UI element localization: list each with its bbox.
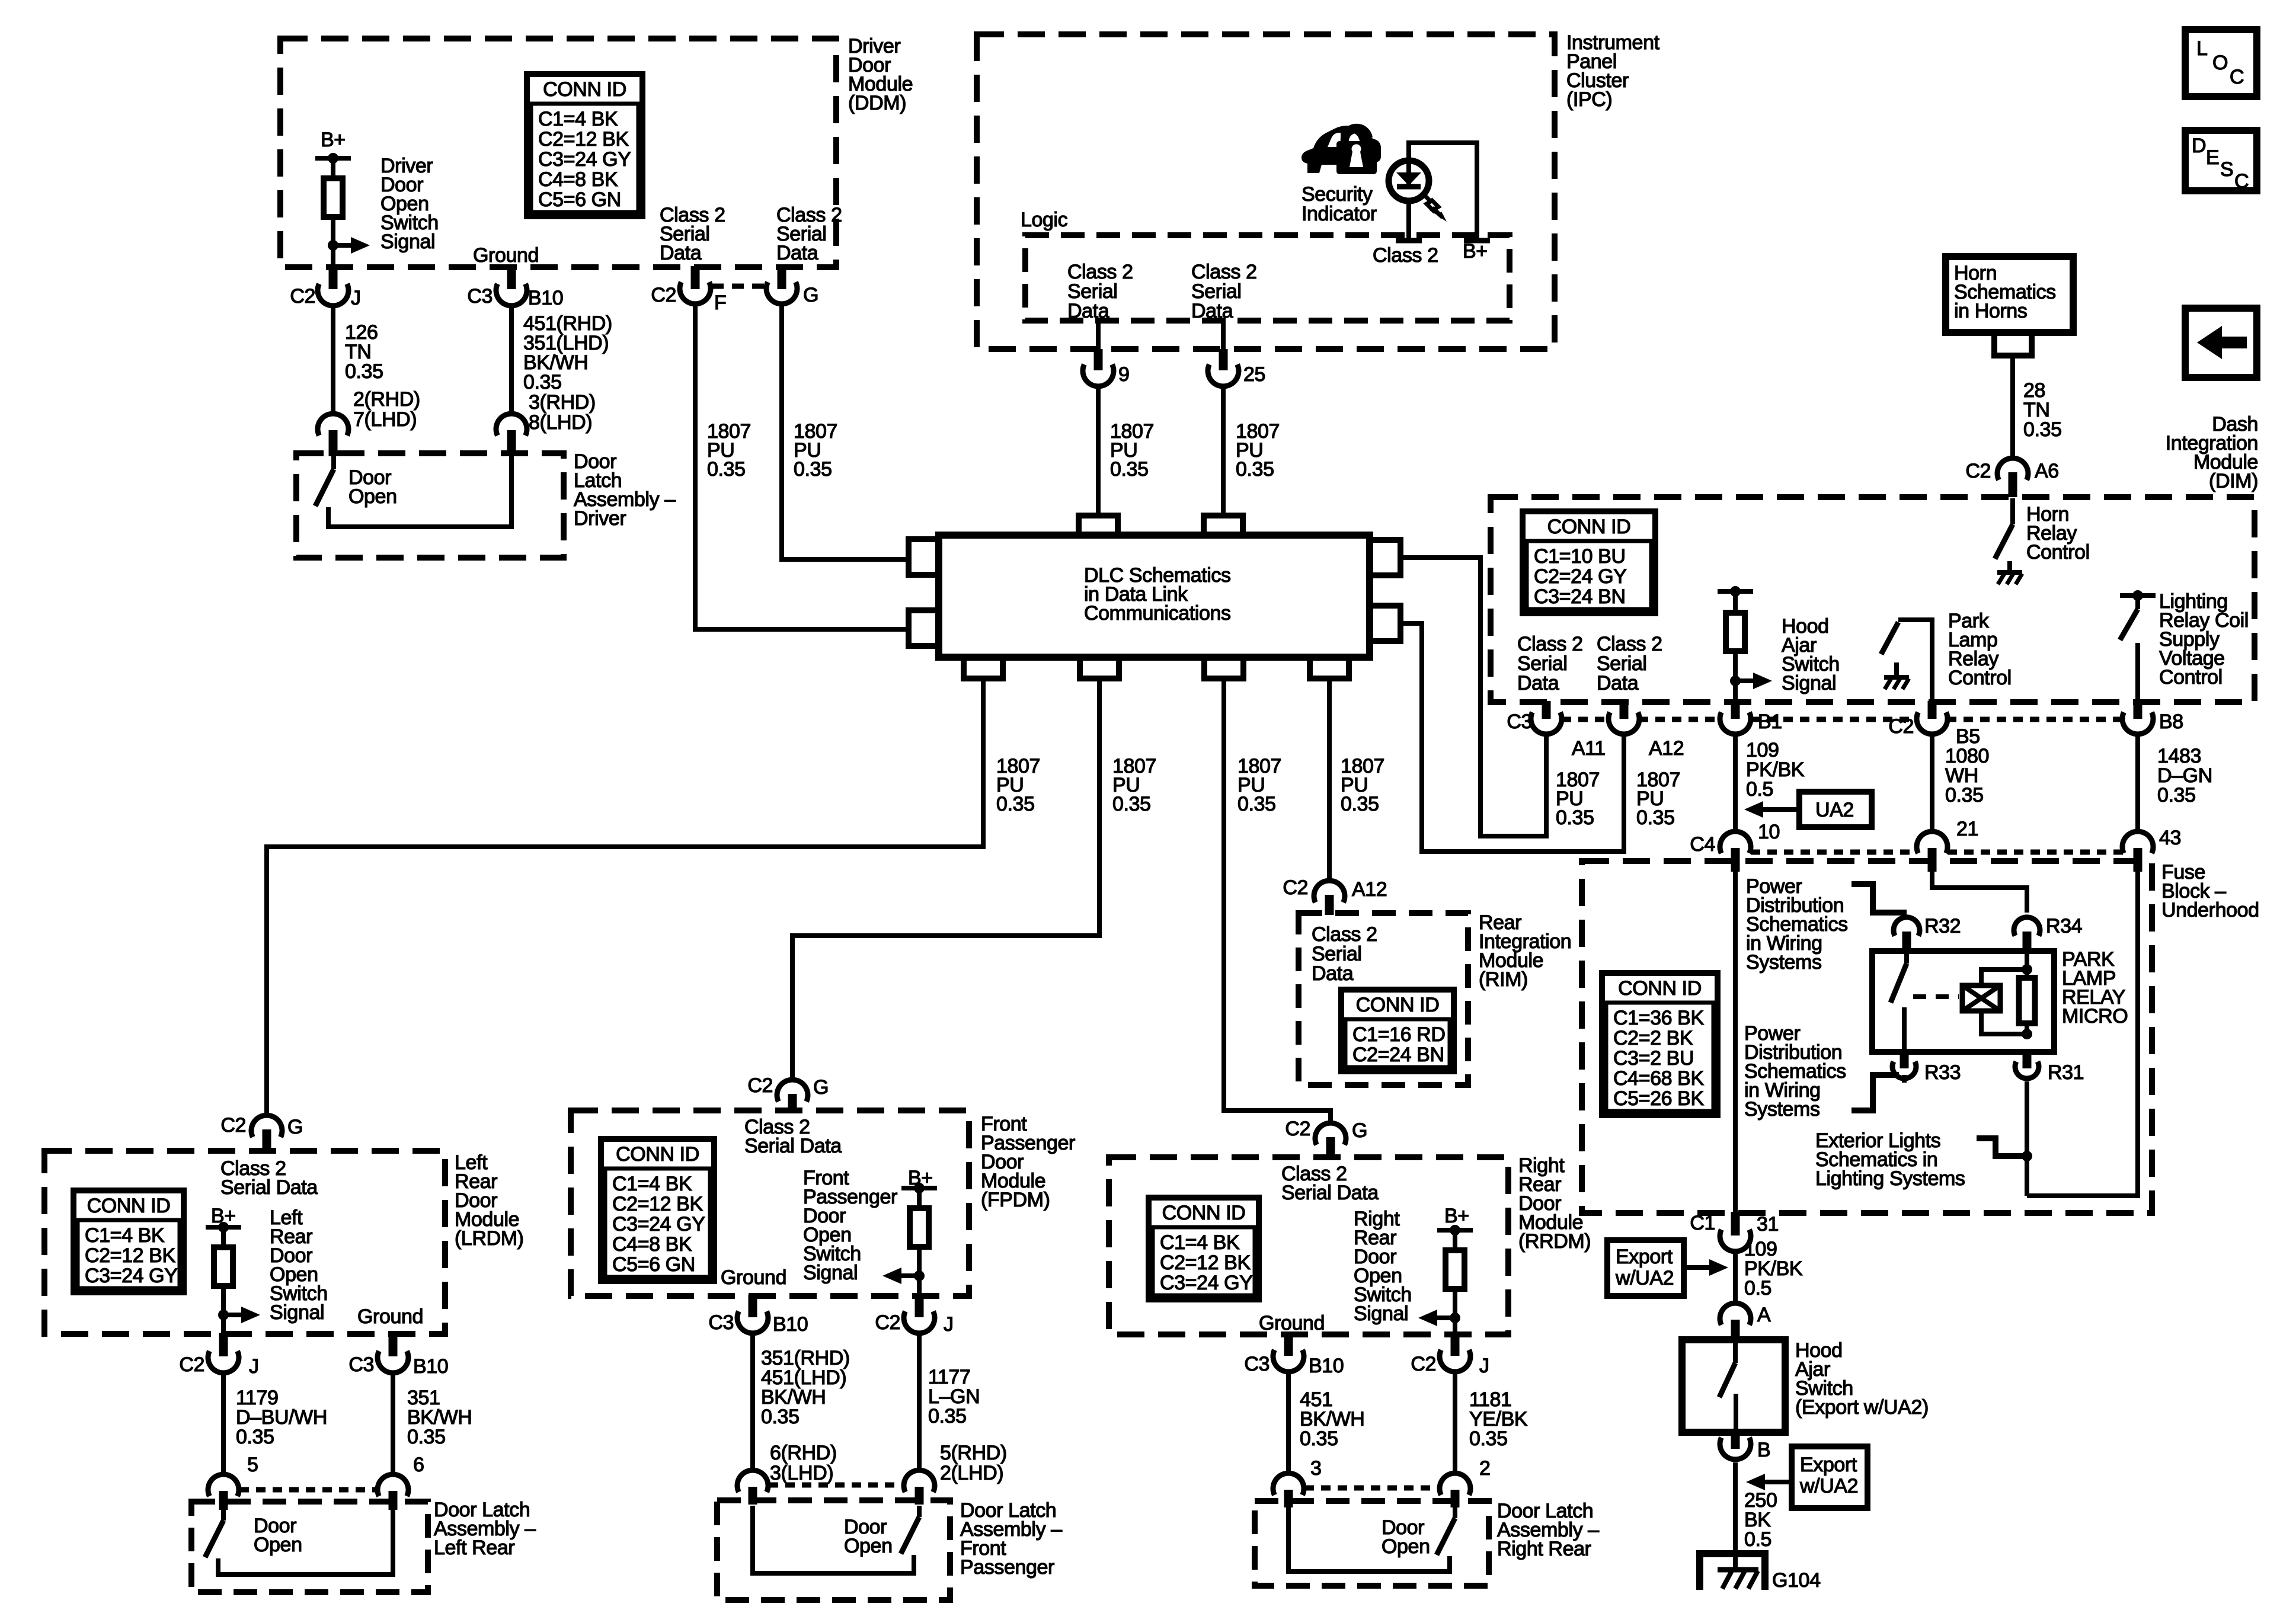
switch Door Open (left rear latch): [221, 1510, 226, 1521]
switch Door Open (driver latch): [331, 453, 336, 469]
wire 250 BK 0.5 (to G104): [1733, 1462, 1738, 1571]
svg-text:Control: Control: [2159, 666, 2223, 689]
svg-text:Data: Data: [1597, 672, 1639, 694]
connector 21 (fuse block): [1917, 831, 1948, 853]
svg-text:0.35: 0.35: [2157, 784, 2196, 806]
module DLC Schematics box: [939, 535, 1370, 657]
wire DLC to LRDM (class 2): [267, 678, 983, 1113]
switch park lamp relay control (DIM): [1898, 620, 1932, 702]
svg-text:B+: B+: [1444, 1205, 1469, 1227]
svg-text:C1=4 BK: C1=4 BK: [85, 1224, 165, 1247]
node junction + signal arrow (Driver Door Open Switch Signal): [328, 240, 338, 251]
inline connector dashes latch right rear: [1304, 1486, 1440, 1491]
ground chassis (horn relay control): [1997, 570, 2022, 575]
connector C2 G (RRDM): [1315, 1123, 1346, 1145]
svg-text:Data: Data: [1191, 300, 1233, 322]
svg-text:0.35: 0.35: [345, 360, 383, 383]
svg-text:CONN ID: CONN ID: [1547, 516, 1631, 538]
bracket power distribution to R32: [1851, 884, 1907, 913]
svg-text:Open: Open: [348, 485, 397, 508]
module RIM dashed box (Rear Integration Module): [1299, 913, 1468, 1085]
svg-text:S: S: [2220, 158, 2233, 181]
svg-text:Serial Data: Serial Data: [220, 1176, 318, 1199]
svg-text:Ground: Ground: [721, 1266, 786, 1289]
bottom pin bracket (Horn Schematics): [1994, 332, 2032, 356]
svg-text:0.35: 0.35: [1556, 806, 1594, 829]
svg-text:Indicator: Indicator: [1302, 203, 1377, 225]
svg-text:G: G: [1352, 1119, 1367, 1142]
module FPDM dashed box (Front Passenger Door Module): [571, 1110, 969, 1296]
CONN ID table (DDM): [527, 74, 642, 216]
option box UA2: [1799, 792, 1872, 827]
svg-text:C1=4 BK: C1=4 BK: [538, 108, 618, 130]
svg-text:B10: B10: [1309, 1355, 1344, 1377]
svg-text:C2=12 BK: C2=12 BK: [612, 1193, 703, 1215]
svg-text:C1: C1: [1690, 1212, 1715, 1234]
svg-text:C2=12 BK: C2=12 BK: [538, 128, 629, 151]
wire resistor to C2-J (LRDM): [221, 1286, 226, 1334]
connector C2 G (FPDM): [777, 1080, 808, 1102]
svg-text:G104: G104: [1772, 1569, 1821, 1592]
wire 109 PK/BK through fuse block (C4 to C1): [1733, 871, 1738, 1213]
svg-text:C2: C2: [1965, 460, 1991, 482]
svg-text:Open: Open: [1382, 1535, 1430, 1558]
connector pin 2 (door latch right rear): [1440, 1473, 1470, 1495]
svg-text:(Export w/UA2): (Export w/UA2): [1795, 1396, 1929, 1419]
svg-text:Serial Data: Serial Data: [1281, 1182, 1379, 1204]
arrow Export w/UA2 applies (upper): [1683, 1265, 1712, 1270]
inline connector dashes latch left rear: [239, 1487, 378, 1493]
svg-text:Systems: Systems: [1746, 951, 1822, 974]
svg-text:0.35: 0.35: [236, 1426, 274, 1448]
svg-text:CONN ID: CONN ID: [1356, 994, 1440, 1016]
svg-text:D: D: [2192, 135, 2206, 157]
connector pin 9 (IPC): [1096, 321, 1101, 351]
wire B+ to resistor (LRDM): [221, 1227, 226, 1247]
connector 43 (fuse block): [2122, 831, 2153, 853]
svg-text:Signal: Signal: [1354, 1302, 1408, 1325]
node relay coil bottom: [2022, 1029, 2032, 1039]
connector B (hood ajar switch): [1731, 1431, 1740, 1449]
left pin bracket lower (DLC): [909, 610, 939, 646]
wire R31 to 1483 D-GN (43): [2027, 871, 2138, 1196]
switch Door Open (front passenger latch): [917, 1506, 922, 1517]
module LRDM dashed box (Left Rear Door Module): [44, 1151, 445, 1334]
svg-text:Left Rear: Left Rear: [434, 1537, 514, 1559]
svg-text:3: 3: [1310, 1457, 1322, 1480]
ground chassis (park lamp relay control): [1884, 675, 1909, 680]
connector C2 G (LRDM): [251, 1115, 282, 1137]
module Door Latch Assembly - Left Rear dashed box: [191, 1502, 428, 1592]
svg-text:CONN ID: CONN ID: [1162, 1202, 1246, 1224]
left pin bracket upper (DLC): [909, 539, 939, 575]
svg-text:C3: C3: [708, 1311, 734, 1334]
node junction + arrow (right rear door open switch signal): [1450, 1313, 1460, 1323]
svg-text:0.35: 0.35: [1236, 458, 1274, 481]
svg-text:7(LHD): 7(LHD): [353, 408, 417, 431]
svg-text:C3=24 GY: C3=24 GY: [85, 1265, 178, 1287]
arrow Export w/UA2 applies (lower): [1763, 1480, 1793, 1484]
svg-text:(FPDM): (FPDM): [981, 1189, 1050, 1211]
connector B8 (DIM): [2134, 701, 2142, 719]
svg-text:0.35: 0.35: [1112, 793, 1151, 815]
wire 109 PK/BK 0.5 (C1 to hood ajar switch): [1733, 1254, 1738, 1301]
svg-text:C1=4 BK: C1=4 BK: [612, 1173, 692, 1195]
wire 21 to R34: [1932, 861, 2027, 913]
svg-text:0.35: 0.35: [1110, 458, 1149, 481]
switch park lamp relay contacts: [1904, 951, 1909, 964]
svg-text:B8: B8: [2159, 710, 2183, 733]
node junction + arrow (hood ajar switch signal): [1730, 676, 1741, 686]
svg-text:C2=2 BK: C2=2 BK: [1613, 1027, 1693, 1049]
node relay coil top: [2022, 964, 2032, 975]
connector pin 6 (door latch left rear): [378, 1474, 408, 1496]
node hood ajar feed tick (DIM): [1718, 589, 1753, 594]
svg-text:CONN ID: CONN ID: [87, 1195, 171, 1217]
svg-text:C2=12 BK: C2=12 BK: [1160, 1251, 1251, 1274]
svg-text:5: 5: [247, 1454, 258, 1476]
svg-text:Passenger: Passenger: [960, 1556, 1054, 1579]
wire 1807 PU (IPC 9 to DLC): [1096, 386, 1101, 514]
svg-text:G: G: [813, 1076, 829, 1099]
svg-text:9: 9: [1118, 363, 1130, 386]
connector C4 10 (fuse block): [1720, 831, 1751, 853]
wire resistor to C2-J (RRDM): [1453, 1289, 1457, 1334]
svg-text:B+: B+: [1463, 240, 1488, 263]
wire 451 BK/WH (RRDM to latch): [1286, 1374, 1291, 1471]
svg-text:31: 31: [1757, 1213, 1779, 1235]
module DDM dashed box (Driver Door Module): [280, 39, 836, 267]
svg-text:3(RHD): 3(RHD): [529, 391, 596, 414]
CONN ID table (DIM): [1523, 511, 1655, 613]
resistor DDM door open switch pull-up: [324, 178, 343, 217]
connector pin 6/3 (door latch front passenger): [737, 1470, 768, 1492]
switch horn relay control (DIM): [2010, 498, 2015, 524]
svg-text:C3=24 GY: C3=24 GY: [1160, 1272, 1253, 1294]
svg-text:Control: Control: [2026, 541, 2090, 564]
wire class 2 serial data G to DLC: [782, 306, 909, 559]
svg-text:J: J: [249, 1355, 259, 1378]
svg-text:Underhood: Underhood: [2161, 899, 2259, 921]
svg-text:CONN ID: CONN ID: [543, 78, 626, 101]
svg-text:R31: R31: [2048, 1061, 2084, 1084]
svg-text:C3: C3: [1507, 710, 1532, 733]
svg-text:C: C: [2234, 170, 2249, 193]
relay PARK LAMP RELAY MICRO box: [1872, 951, 2054, 1052]
svg-text:F: F: [714, 292, 726, 314]
svg-text:B10: B10: [773, 1313, 808, 1336]
switch lighting relay coil supply (DIM): [2135, 596, 2140, 609]
connector C2 A6 (DIM): [1997, 458, 2028, 480]
svg-text:Export: Export: [1616, 1246, 1673, 1268]
svg-text:0.35: 0.35: [407, 1426, 446, 1448]
connector C2 J (LRDM): [219, 1333, 228, 1356]
svg-text:J: J: [351, 287, 361, 309]
wire class 2 serial data F to DLC: [695, 306, 909, 629]
svg-text:Ground: Ground: [357, 1305, 423, 1328]
connector A12 (DIM): [1620, 701, 1629, 719]
svg-text:C2=24 BN: C2=24 BN: [1352, 1044, 1444, 1066]
svg-text:0.35: 0.35: [523, 371, 562, 393]
switch Door Open (right rear latch): [1453, 1507, 1457, 1518]
svg-text:w/UA2: w/UA2: [1615, 1267, 1674, 1289]
wire feed to resistor (hood ajar): [1733, 591, 1738, 613]
svg-text:C1=36 BK: C1=36 BK: [1613, 1007, 1704, 1029]
connector R33 (fuse block relay): [1900, 1052, 1909, 1068]
svg-text:A12: A12: [1352, 878, 1387, 901]
wire R31 to exterior lights node: [2025, 1081, 2029, 1196]
wire 1179 D-BU/WH (LRDM to latch): [221, 1375, 226, 1472]
inline connector dashes latch front passenger: [769, 1483, 904, 1488]
svg-text:C4=68 BK: C4=68 BK: [1613, 1067, 1704, 1090]
switch hood ajar contacts: [1733, 1340, 1738, 1363]
connector pin 3/8 (door latch driver): [496, 414, 527, 436]
ground G104: [1700, 1554, 1765, 1590]
svg-text:(LRDM): (LRDM): [455, 1227, 524, 1250]
connector A (hood ajar switch): [1720, 1303, 1751, 1325]
connector pin 5/2 (door latch front passenger): [904, 1470, 935, 1492]
CONN ID table (fuse block): [1602, 973, 1718, 1115]
svg-text:B10: B10: [528, 287, 563, 309]
svg-text:G: G: [803, 284, 818, 306]
svg-text:C2: C2: [1411, 1353, 1436, 1375]
svg-text:C2=24 GY: C2=24 GY: [1534, 565, 1627, 588]
wire DLC to DIM A12 (class 2): [1400, 623, 1624, 852]
bottom pin bracket 1 (DLC): [964, 657, 1003, 678]
LED security indicator lamp: [1406, 201, 1411, 241]
connector C3 B10 (RRDM): [1284, 1333, 1293, 1356]
svg-text:C2: C2: [1283, 876, 1308, 899]
connector G (DDM class 2): [778, 266, 786, 289]
svg-text:B: B: [1757, 1439, 1770, 1461]
svg-text:Signal: Signal: [270, 1301, 324, 1324]
wire resistor to B1 (hood ajar): [1733, 651, 1738, 702]
svg-text:C3=24 GY: C3=24 GY: [538, 148, 631, 171]
svg-text:25: 25: [1243, 363, 1265, 386]
svg-text:G: G: [287, 1116, 303, 1138]
svg-text:Data: Data: [660, 242, 702, 264]
wire 126 TN 0.35 (C2 J to door latch): [331, 308, 335, 411]
svg-text:6: 6: [413, 1454, 424, 1476]
svg-text:Open: Open: [844, 1535, 893, 1557]
svg-text:B+: B+: [321, 129, 346, 151]
connector C3 B10 (FPDM): [749, 1295, 757, 1317]
top pin bracket right (DLC): [1204, 516, 1243, 535]
svg-text:0.35: 0.35: [761, 1406, 800, 1428]
icon DESC box: [2185, 130, 2257, 191]
reference box Horn Schematics in Horns: [1946, 257, 2073, 332]
svg-text:R33: R33: [1924, 1061, 1961, 1084]
bracket exterior lights to R31 wire: [1977, 1138, 2025, 1156]
svg-text:B1: B1: [1758, 710, 1782, 733]
wire resistor to C2-J (FPDM): [917, 1247, 922, 1296]
svg-text:0.35: 0.35: [1469, 1427, 1508, 1450]
module IPC dashed box (Instrument Panel Cluster): [977, 34, 1555, 349]
svg-text:E: E: [2206, 146, 2219, 169]
svg-text:C2=12 BK: C2=12 BK: [85, 1244, 175, 1267]
svg-text:C3: C3: [467, 285, 493, 308]
svg-text:0.35: 0.35: [1237, 793, 1276, 815]
wire 1080 WH 0.35 (B5 to 21): [1930, 737, 1934, 829]
connector R31 (fuse block relay): [2023, 1052, 2032, 1068]
svg-text:L: L: [2196, 37, 2208, 60]
svg-text:C5=6 GN: C5=6 GN: [612, 1253, 695, 1276]
icon LOC box: [2185, 30, 2257, 97]
svg-text:0.35: 0.35: [1300, 1427, 1338, 1450]
svg-text:Data: Data: [1312, 962, 1354, 985]
connector C2 J (RRDM): [1451, 1333, 1460, 1356]
svg-text:R34: R34: [2046, 915, 2082, 937]
svg-text:J: J: [944, 1313, 954, 1336]
svg-text:2: 2: [1479, 1457, 1491, 1480]
svg-text:CONN ID: CONN ID: [1618, 977, 1702, 1000]
svg-text:0.5: 0.5: [1744, 1528, 1771, 1551]
connector pin 2/7 (door latch driver): [318, 414, 348, 436]
module Fuse Block - Underhood dashed box: [1582, 861, 2152, 1213]
svg-text:Logic: Logic: [1021, 209, 1068, 231]
relay coil (X box): [1981, 969, 2027, 985]
svg-text:A12: A12: [1649, 737, 1684, 760]
svg-text:C5=6 GN: C5=6 GN: [538, 188, 621, 211]
inline connector dashes row A11-B8: [1562, 717, 1609, 722]
right pin bracket upper (DLC): [1370, 540, 1400, 575]
wire DLC to FPDM (class 2): [792, 678, 1099, 1080]
wire 1177 L-GN (FPDM to latch): [917, 1336, 922, 1468]
svg-text:(DIM): (DIM): [2209, 470, 2258, 492]
svg-text:2(RHD): 2(RHD): [353, 388, 420, 411]
svg-text:Data: Data: [776, 242, 818, 264]
inline connector dashes row C4-43: [1751, 850, 1917, 855]
connector pin 5 (door latch left rear): [208, 1474, 239, 1496]
wire B+ to resistor (FPDM): [917, 1188, 922, 1208]
svg-text:UA2: UA2: [1815, 799, 1854, 821]
svg-text:0.35: 0.35: [928, 1405, 967, 1427]
connector C2 A12 (RIM): [1314, 881, 1345, 902]
wire 1181 YE/BK (RRDM to latch): [1453, 1374, 1457, 1471]
svg-text:C2: C2: [1888, 715, 1914, 738]
connector C3 B10 (DDM ground): [507, 266, 516, 289]
svg-text:C2: C2: [179, 1353, 204, 1376]
module DIM dashed box (Dash Integration Module): [1491, 497, 2255, 702]
CONN ID table (FPDM): [601, 1139, 714, 1281]
connector C3 A11 (DIM): [1542, 701, 1551, 719]
svg-text:0.35: 0.35: [996, 793, 1035, 815]
icon left-arrow box: [2185, 308, 2257, 377]
wire 1807 PU (IPC 25 to DLC): [1221, 386, 1226, 514]
svg-text:Signal: Signal: [803, 1262, 858, 1284]
module Door Latch Assembly - Right Rear dashed box: [1255, 1501, 1489, 1586]
resistor park lamp relay: [2025, 951, 2029, 978]
svg-text:C2: C2: [220, 1114, 246, 1137]
connector C1 31 (fuse block bottom): [1731, 1212, 1740, 1235]
svg-text:J: J: [1479, 1355, 1489, 1377]
arrow UA2 applies to wire: [1761, 807, 1801, 812]
wire relay coil link (dashed): [1913, 994, 1959, 999]
svg-text:C2: C2: [1285, 1118, 1310, 1140]
switch Hood Ajar Switch box: [1682, 1340, 1785, 1432]
svg-text:C2: C2: [651, 284, 676, 306]
svg-text:C3=24 GY: C3=24 GY: [612, 1213, 705, 1235]
svg-text:0.35: 0.35: [1341, 793, 1379, 815]
connector pin 25 (IPC): [1221, 321, 1226, 351]
node lighting relay coil feed tick (DIM): [2120, 593, 2156, 598]
svg-text:(DDM): (DDM): [848, 92, 906, 114]
icon security indicator (car with padlock): [1302, 124, 1381, 174]
right pin bracket lower (DLC): [1370, 606, 1400, 641]
svg-text:Systems: Systems: [1744, 1098, 1820, 1121]
wire 1483 D-GN 0.35 (B8 to 43): [2135, 737, 2140, 829]
svg-text:Data: Data: [1067, 300, 1109, 322]
wire 1807 PU (A11 to DLC): [1544, 737, 1549, 836]
option box Export w/UA2 (upper): [1607, 1240, 1684, 1296]
CONN ID table (RIM): [1341, 990, 1454, 1071]
svg-text:Signal: Signal: [380, 231, 435, 253]
svg-text:8(LHD): 8(LHD): [529, 411, 592, 434]
svg-text:2(LHD): 2(LHD): [940, 1462, 1003, 1484]
icon light-emission arrows (LED): [1423, 194, 1435, 212]
svg-text:Communications: Communications: [1084, 602, 1231, 625]
bottom pin bracket 4 (DLC): [1310, 657, 1349, 678]
wire B+ to resistor (RRDM): [1453, 1230, 1457, 1250]
wire 1807 PU (A12 to DLC): [1622, 737, 1626, 852]
svg-text:(RIM): (RIM): [1479, 968, 1528, 991]
connector pin 3 (door latch right rear): [1273, 1473, 1304, 1495]
svg-text:0.35: 0.35: [794, 458, 832, 481]
svg-text:B10: B10: [413, 1355, 448, 1378]
module RRDM dashed box (Right Rear Door Module): [1109, 1157, 1508, 1334]
svg-text:Right Rear: Right Rear: [1497, 1538, 1591, 1560]
svg-text:O: O: [2212, 52, 2228, 74]
connector C2 J (DDM): [329, 266, 338, 289]
connector C2 B5 (DIM): [1928, 701, 1937, 719]
resistor LRDM door open switch pull-up: [214, 1247, 233, 1286]
svg-text:Ground: Ground: [473, 244, 539, 267]
connector C2 F (DDM class 2): [691, 266, 700, 289]
svg-text:C4=8 BK: C4=8 BK: [538, 168, 618, 191]
module Door Latch Assembly - Front Passenger dashed box: [717, 1500, 950, 1600]
connector R32 (fuse block relay): [1894, 917, 1920, 936]
svg-text:C1=16 RD: C1=16 RD: [1352, 1023, 1446, 1046]
svg-text:(RRDM): (RRDM): [1518, 1230, 1591, 1253]
svg-text:Ground: Ground: [1259, 1312, 1325, 1334]
svg-text:10: 10: [1758, 821, 1780, 843]
wire DLC to RRDM (class 2): [1224, 678, 1331, 1121]
svg-text:C3=24 BN: C3=24 BN: [1534, 585, 1626, 608]
wire DLC to DIM A11 (class 2): [1400, 558, 1546, 836]
svg-text:C3=2 BU: C3=2 BU: [1613, 1047, 1694, 1070]
CONN ID table (RRDM): [1149, 1198, 1259, 1299]
svg-text:0.5: 0.5: [1746, 778, 1773, 801]
wire 351/451 BK/WH (FPDM to latch): [750, 1336, 755, 1468]
svg-text:0.35: 0.35: [1945, 784, 1984, 806]
svg-text:CONN ID: CONN ID: [616, 1143, 699, 1166]
svg-text:C3: C3: [348, 1353, 374, 1376]
svg-text:C5=26 BK: C5=26 BK: [1613, 1087, 1704, 1110]
node junction + arrow (left rear door open switch signal): [218, 1310, 229, 1320]
svg-text:Control: Control: [1948, 667, 2012, 689]
svg-text:C2: C2: [875, 1311, 900, 1334]
wire DLC to RIM (class 2): [1327, 678, 1332, 878]
svg-text:A11: A11: [1572, 737, 1606, 760]
option box Export w/UA2 (lower): [1792, 1446, 1868, 1508]
svg-text:w/UA2: w/UA2: [1799, 1475, 1858, 1497]
svg-text:MICRO: MICRO: [2062, 1005, 2128, 1028]
svg-text:C4: C4: [1690, 833, 1715, 856]
svg-text:43: 43: [2159, 827, 2181, 849]
svg-text:C: C: [2230, 66, 2244, 88]
wire 109 PK/BK 0.5 (B1 to C4): [1733, 737, 1738, 829]
svg-text:Data: Data: [1517, 672, 1559, 694]
